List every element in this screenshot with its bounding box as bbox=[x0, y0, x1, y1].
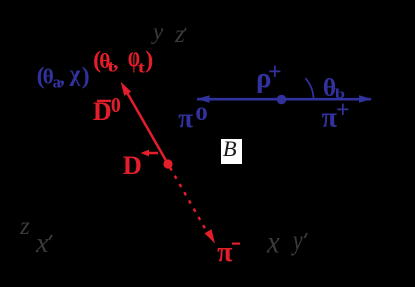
svg-text:y: y bbox=[151, 19, 164, 44]
svg-text:0: 0 bbox=[195, 102, 207, 124]
theta_b angle arc bbox=[305, 78, 313, 99]
D vector arrowhead bbox=[141, 150, 150, 157]
B meson label box bbox=[221, 139, 242, 164]
svg-text:x: x bbox=[266, 224, 280, 260]
left arrowhead (pi0 direction) bbox=[197, 95, 210, 102]
svg-text:π: π bbox=[217, 237, 233, 268]
svg-text:): ) bbox=[82, 64, 90, 90]
rho+ decay vertex dot bbox=[277, 95, 286, 104]
right arrowhead (pi+ direction) bbox=[359, 95, 372, 102]
svg-text:0: 0 bbox=[111, 94, 121, 117]
pi- direction arrowhead bbox=[205, 229, 216, 243]
D0 flight line (red solid) bbox=[125, 89, 168, 164]
svg-text:,: , bbox=[59, 64, 65, 89]
svg-text:x: x bbox=[35, 228, 49, 259]
svg-text:D: D bbox=[123, 150, 142, 180]
rho+ / pi+ flight line (blue) bbox=[197, 98, 371, 101]
svg-text:π: π bbox=[178, 103, 193, 133]
svg-text:+: + bbox=[268, 60, 282, 86]
svg-text:χ: χ bbox=[69, 61, 81, 86]
svg-text:): ) bbox=[145, 47, 153, 73]
B decay vertex dot (red) bbox=[163, 159, 172, 168]
D0 direction arrowhead bbox=[121, 82, 132, 96]
svg-text:z: z bbox=[19, 213, 30, 240]
svg-text:z: z bbox=[174, 21, 185, 48]
D vector arrow line bbox=[144, 152, 158, 155]
svg-text:y: y bbox=[290, 224, 303, 256]
pi- flight line (red dashed) bbox=[170, 168, 207, 232]
svg-text:,: , bbox=[113, 49, 119, 74]
svg-text:B: B bbox=[223, 136, 237, 161]
svg-text:+: + bbox=[336, 97, 350, 123]
D0bar overbar bbox=[97, 100, 111, 102]
pi- superscript minus bbox=[232, 243, 240, 245]
